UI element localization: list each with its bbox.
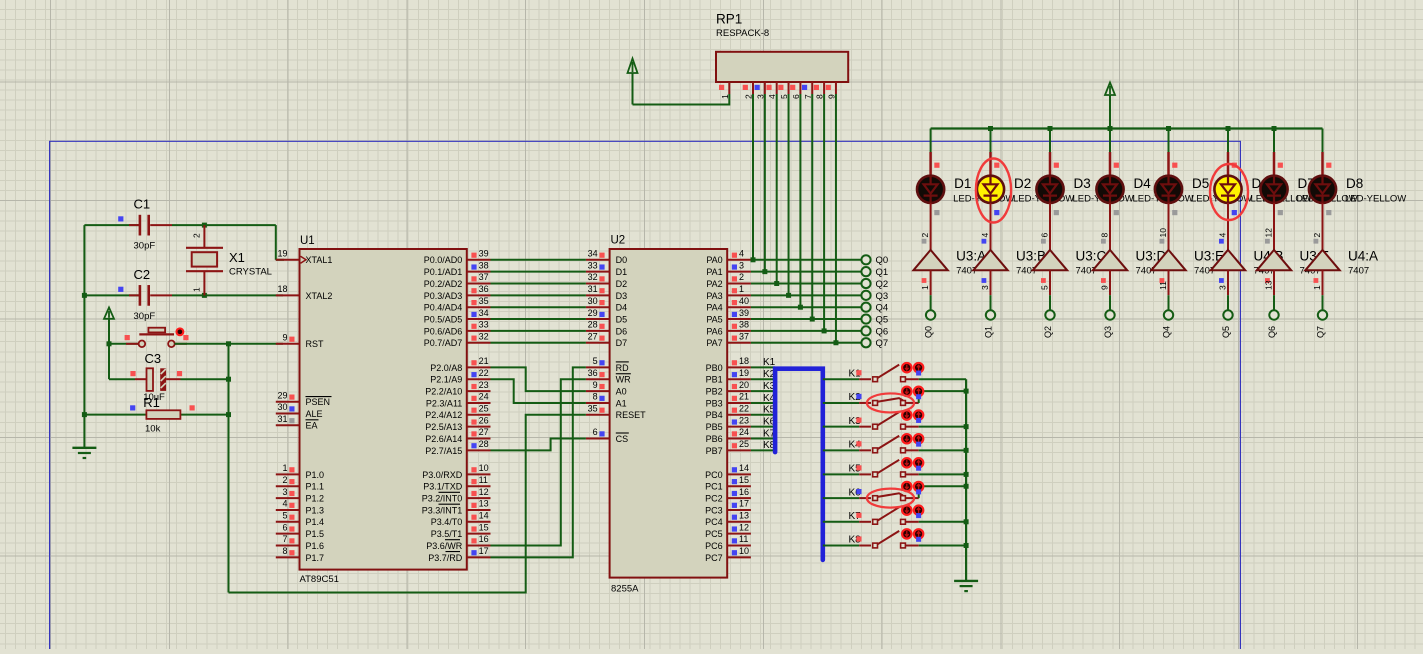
svg-text:XTAL1: XTAL1 <box>306 255 333 265</box>
wire LED D7 to buffer <box>1273 203 1275 250</box>
svg-text:P1.5: P1.5 <box>306 529 325 539</box>
svg-text:32: 32 <box>588 272 598 282</box>
svg-text:15: 15 <box>739 475 749 485</box>
svg-text:22: 22 <box>479 368 489 378</box>
LED D6 state square (top) <box>1232 163 1237 168</box>
svg-text:3: 3 <box>1218 285 1228 290</box>
LED D1 anode pin <box>929 152 932 176</box>
K7 actuator state square <box>916 513 921 518</box>
svg-text:P1.3: P1.3 <box>306 505 325 515</box>
K5 actuator state square <box>916 466 921 471</box>
button actuator circle <box>177 328 184 335</box>
U2 pin 20 PB2 <box>706 380 751 397</box>
svg-text:27: 27 <box>479 427 489 437</box>
svg-text:11: 11 <box>1158 281 1168 290</box>
svg-text:35: 35 <box>479 296 489 306</box>
svg-text:D1: D1 <box>616 267 628 277</box>
svg-text:40: 40 <box>739 296 749 306</box>
junction K8-ground rail <box>964 543 969 548</box>
wire PB1 stub to bus <box>751 378 775 380</box>
svg-text:PB7: PB7 <box>706 446 723 456</box>
U1 pin 34 P0.5/AD5 <box>424 308 491 325</box>
wire button to RST <box>175 343 284 345</box>
power symbol VCC (LED rail) <box>1105 83 1115 96</box>
LED D3 <box>1036 176 1063 203</box>
svg-text:32: 32 <box>479 331 489 341</box>
U2 pin 21 PB3 <box>706 392 751 409</box>
U2 pin 18 PB0 <box>706 356 751 373</box>
svg-text:PB4: PB4 <box>706 410 723 420</box>
svg-text:21: 21 <box>739 392 749 402</box>
terminal Q1 (LED column) <box>986 310 995 319</box>
buffer U3:E input state square <box>1160 278 1165 283</box>
buffer U4:A input pin <box>1322 270 1324 295</box>
svg-text:Q2: Q2 <box>876 279 889 290</box>
wire WR to P3.6 <box>491 379 586 545</box>
K3 actuator state square <box>916 418 921 423</box>
svg-text:PB5: PB5 <box>706 422 723 432</box>
svg-text:13: 13 <box>739 511 749 521</box>
ground (reset circuit) <box>72 447 96 449</box>
svg-text:30pF: 30pF <box>134 311 156 322</box>
wire buffer to terminal Q2 <box>1049 295 1051 310</box>
svg-text:P3.7/RD: P3.7/RD <box>428 553 463 563</box>
svg-text:36: 36 <box>588 368 598 378</box>
junction C3-RST node <box>226 377 231 382</box>
buffer U3:C output state square <box>1041 239 1046 244</box>
K8 actuator circles <box>902 529 923 538</box>
wire LED D4 to buffer <box>1109 203 1111 250</box>
RP1 pin 6 <box>790 82 801 99</box>
svg-text:14: 14 <box>739 463 749 473</box>
svg-text:6: 6 <box>593 427 598 437</box>
RP1 pin 1 <box>719 82 730 99</box>
buffer U4:B (7407) <box>1211 250 1245 270</box>
U1 pin 28 P2.7/A15 <box>425 439 490 456</box>
K4 actuator circles <box>902 434 923 443</box>
LED D2 state square (bottom) <box>994 210 999 215</box>
junction left C2 <box>82 293 87 298</box>
LED D5 anode pin <box>1167 152 1170 176</box>
wire rail to LED D1 <box>930 129 932 153</box>
svg-text:D4: D4 <box>616 303 628 313</box>
U1 pin 3 P1.2 <box>276 487 324 504</box>
U1 pin 29 PSEN <box>276 390 332 407</box>
svg-text:2: 2 <box>1312 233 1322 238</box>
svg-text:R1: R1 <box>143 395 160 410</box>
svg-text:P3.3/INT1: P3.3/INT1 <box>422 505 463 515</box>
wire C1 to XTAL1 <box>204 225 284 260</box>
wire AD2 bus U1-U2 <box>491 283 586 285</box>
U2 pin 13 PC4 <box>705 511 751 528</box>
svg-text:5: 5 <box>593 356 598 366</box>
svg-text:P0.1/AD1: P0.1/AD1 <box>424 267 463 277</box>
svg-text:29: 29 <box>588 308 598 318</box>
terminal Q5 <box>861 314 870 323</box>
svg-text:P2.3/A11: P2.3/A11 <box>426 398 462 408</box>
wire RP1 pin6 to Q4 net <box>799 94 801 307</box>
wire PB7 stub to bus <box>751 449 775 451</box>
LED D4 state square (bottom) <box>1114 210 1119 215</box>
wire P2.0 to A0 <box>491 367 586 391</box>
buffer U3:C input state square <box>1041 278 1046 283</box>
wire AD0 bus U1-U2 <box>491 259 586 261</box>
svg-text:A1: A1 <box>616 398 627 408</box>
svg-text:PA3: PA3 <box>706 291 722 301</box>
wire RP1 pin7 to Q5 net <box>811 94 813 319</box>
svg-text:Q6: Q6 <box>876 326 889 337</box>
wire rail to LED D6 <box>1227 129 1229 153</box>
push button (reset) <box>126 328 187 347</box>
terminal Q1 <box>861 267 870 276</box>
svg-text:P2.5/A13: P2.5/A13 <box>425 422 462 432</box>
U1 pin 26 P2.5/A13 <box>425 415 490 432</box>
RP1 pin 4 <box>766 82 777 99</box>
svg-text:PA1: PA1 <box>706 267 722 277</box>
U2 pin 24 PB6 <box>706 427 751 444</box>
svg-text:4: 4 <box>1218 233 1228 238</box>
buffer U3:D output state square <box>1101 239 1106 244</box>
U2 pin 14 PC0 <box>705 463 751 480</box>
svg-text:12: 12 <box>1264 228 1274 238</box>
U2 pin 3 PA1 <box>706 260 751 277</box>
wire PA4 to terminal Q4 <box>751 306 862 308</box>
buffer U3:E (7407) <box>1151 250 1185 270</box>
wire AD7 bus U1-U2 <box>491 342 586 344</box>
buffer U3:F input pin <box>1273 270 1275 295</box>
svg-text:PC4: PC4 <box>705 517 723 527</box>
U2 pin 15 PC1 <box>705 475 751 492</box>
U1 pin 30 ALE <box>276 402 323 419</box>
buffer U3:E input pin <box>1168 270 1170 295</box>
svg-text:P3.4/T0: P3.4/T0 <box>431 517 463 527</box>
wire buffer to terminal Q1 <box>990 295 992 310</box>
wire LED D3 to buffer <box>1049 203 1051 250</box>
svg-text:PC2: PC2 <box>705 494 723 504</box>
svg-text:RESPACK-8: RESPACK-8 <box>716 28 769 39</box>
svg-text:18: 18 <box>277 284 287 294</box>
U2 pin 17 PC3 <box>705 499 751 516</box>
terminal Q6 (LED column) <box>1269 310 1278 319</box>
svg-text:16: 16 <box>479 534 489 544</box>
wire LED D5 to buffer <box>1168 203 1170 250</box>
wire rail to LED D7 <box>1273 129 1275 153</box>
svg-text:Q7: Q7 <box>876 338 889 349</box>
svg-text:EA: EA <box>306 421 318 431</box>
wire AD6 bus U1-U2 <box>491 330 586 332</box>
svg-text:D3: D3 <box>616 291 628 301</box>
LED D5 <box>1155 176 1182 203</box>
U2 pin 6 CS <box>586 427 629 444</box>
U1 pin 5 P1.4 <box>276 511 324 528</box>
wire LED D6 to buffer <box>1227 203 1229 250</box>
junction RP1-PA5 <box>810 317 815 322</box>
wire RD to P3.7 <box>491 367 586 557</box>
buffer U4:A (7407) <box>1305 250 1339 270</box>
junction LED rail col 5 <box>1166 126 1171 131</box>
wire PA6 to terminal Q6 <box>751 330 862 332</box>
svg-text:10: 10 <box>479 463 489 473</box>
U2 pin 28 D6 <box>586 320 627 337</box>
svg-text:Q0: Q0 <box>876 255 889 266</box>
svg-text:4: 4 <box>739 249 744 259</box>
svg-text:U4:A: U4:A <box>1348 249 1378 264</box>
svg-text:PC3: PC3 <box>705 505 723 515</box>
U1 pin 21 P2.0/A8 <box>430 356 490 373</box>
svg-text:2: 2 <box>282 475 287 485</box>
svg-text:P2.0/A8: P2.0/A8 <box>430 363 462 373</box>
U1 AT89C51 body <box>300 249 467 570</box>
U1 pin 24 P2.3/A11 <box>426 392 491 409</box>
svg-text:AT89C51: AT89C51 <box>300 574 339 585</box>
K6 actuator circles <box>902 482 923 491</box>
svg-text:24: 24 <box>479 392 489 402</box>
wire rail to LED D3 <box>1049 129 1051 153</box>
junction LED rail VCC <box>1108 126 1113 131</box>
wire rail to LED D2 <box>990 129 992 153</box>
junction RP1-PA1 <box>762 269 767 274</box>
svg-text:P3.5/T1: P3.5/T1 <box>431 529 463 539</box>
U1 pin 33 P0.6/AD6 <box>424 320 491 337</box>
capacitor C3 (10uF) <box>109 368 229 391</box>
LED D7 anode pin <box>1273 152 1276 176</box>
switch highlight ellipse K6 <box>867 489 914 508</box>
LED D2 state square (top) <box>994 163 999 168</box>
svg-text:P0.4/AD4: P0.4/AD4 <box>424 303 463 313</box>
terminal Q7 (LED column) <box>1318 310 1327 319</box>
LED D8 <box>1309 176 1336 203</box>
U2 pin 27 D7 <box>586 331 627 348</box>
sheet border <box>50 141 1241 649</box>
power symbol VCC (reset) <box>104 308 114 319</box>
svg-text:D5: D5 <box>1192 176 1209 191</box>
LED D1 state square (top) <box>934 163 939 168</box>
crystal X1 <box>186 225 223 295</box>
U1 pin 17 P3.7/RD <box>428 546 490 563</box>
svg-text:PA4: PA4 <box>706 303 722 313</box>
svg-text:U2: U2 <box>611 235 626 247</box>
svg-text:31: 31 <box>588 284 598 294</box>
switch ground rail <box>965 379 967 581</box>
buffer U4:B output state square <box>1219 239 1224 244</box>
svg-text:39: 39 <box>479 249 489 259</box>
wire rail to LED D8 <box>1322 129 1324 153</box>
junction RP1-PA0 <box>751 257 756 262</box>
svg-text:30: 30 <box>277 402 287 412</box>
wire PB5 stub to bus <box>751 426 775 428</box>
junction RP1-PA2 <box>774 281 779 286</box>
RP1 pin 5 <box>778 82 789 99</box>
U2 pin 38 PA6 <box>706 320 751 337</box>
svg-text:25: 25 <box>479 404 489 414</box>
K1 state square <box>856 370 861 375</box>
LED D6 <box>1214 176 1241 203</box>
svg-text:PC5: PC5 <box>705 529 723 539</box>
U1 pin 22 P2.1/A9 <box>430 368 490 385</box>
LED D7 state square (bottom) <box>1278 210 1283 215</box>
buffer U3:B input state square <box>982 278 987 283</box>
U1 pin 38 P0.1/AD1 <box>424 260 491 277</box>
svg-text:25: 25 <box>739 439 749 449</box>
U2 pin 22 PB4 <box>706 404 751 421</box>
wire VCC to C3 <box>108 344 110 379</box>
svg-text:19: 19 <box>739 368 749 378</box>
switch K6 <box>823 486 966 500</box>
svg-text:5: 5 <box>282 511 287 521</box>
resistor R1 <box>84 410 228 419</box>
wire RP1 pin5 to Q3 net <box>788 94 790 295</box>
U2 pin 9 A0 <box>586 380 627 397</box>
svg-text:2: 2 <box>920 233 930 238</box>
svg-text:D8: D8 <box>1346 176 1363 191</box>
K6 actuator state square <box>916 489 921 494</box>
ground (switches) <box>954 580 978 582</box>
svg-text:3: 3 <box>739 260 744 270</box>
svg-text:PB2: PB2 <box>706 387 723 397</box>
wire RP1 pin2 to Q0 net <box>752 94 754 260</box>
svg-text:A0: A0 <box>616 387 627 397</box>
wire buffer to terminal Q0 <box>930 295 932 310</box>
svg-text:PC6: PC6 <box>705 541 723 551</box>
K5 actuator circles <box>902 458 923 467</box>
switch K7 <box>823 507 966 524</box>
junction RP1-PA6 <box>822 328 827 333</box>
RP1 pin 7 <box>802 82 813 99</box>
svg-text:1: 1 <box>739 284 744 294</box>
svg-text:35: 35 <box>588 404 598 414</box>
U1 pin 23 P2.2/A10 <box>425 380 490 397</box>
K5 state square <box>856 465 861 470</box>
svg-text:C1: C1 <box>134 197 151 212</box>
wire RESET to RST node <box>229 415 586 593</box>
svg-text:P1.1: P1.1 <box>306 482 325 492</box>
svg-text:6: 6 <box>1040 233 1050 238</box>
buffer U4:A output state square <box>1314 239 1319 244</box>
svg-text:23: 23 <box>739 415 749 425</box>
svg-text:PA7: PA7 <box>706 338 722 348</box>
LED D4 anode pin <box>1109 152 1112 176</box>
svg-text:Q0: Q0 <box>924 326 934 338</box>
svg-text:PC1: PC1 <box>705 482 723 492</box>
wire RP1 pin4 to Q2 net <box>776 94 778 284</box>
svg-text:P0.0/AD0: P0.0/AD0 <box>424 255 463 265</box>
LED D7 <box>1260 176 1287 203</box>
svg-text:PSEN: PSEN <box>306 397 331 407</box>
U2 pin 39 PA5 <box>706 308 751 325</box>
wire PA1 to terminal Q1 <box>751 271 862 273</box>
U1 pin 1 P1.0 <box>276 463 324 480</box>
K2 state square <box>856 394 861 399</box>
U1 pin 35 P0.4/AD4 <box>424 296 491 313</box>
buffer U3:A output state square <box>922 239 927 244</box>
svg-text:C2: C2 <box>134 267 151 282</box>
U1 P3 name overlines <box>439 492 461 551</box>
svg-text:PC0: PC0 <box>705 470 723 480</box>
svg-text:2: 2 <box>739 272 744 282</box>
svg-text:2: 2 <box>192 233 202 238</box>
svg-text:4: 4 <box>980 233 990 238</box>
svg-text:P1.0: P1.0 <box>306 470 325 480</box>
svg-text:D7: D7 <box>616 338 628 348</box>
wire buffer to terminal Q7 <box>1322 295 1324 310</box>
LED D8 anode pin <box>1321 152 1324 176</box>
U2 pin 32 D2 <box>586 272 627 289</box>
C1 state square <box>118 216 123 221</box>
U1 pin 36 P0.3/AD3 <box>424 284 491 301</box>
wire RP1 pin1 to VCC <box>633 94 730 105</box>
junction K6-ground rail <box>964 484 969 489</box>
U2 8255A body <box>610 249 728 578</box>
K2 actuator state square <box>916 394 921 399</box>
U2 pin 10 PC7 <box>705 546 751 563</box>
wire buffer to terminal Q4 <box>1168 295 1170 310</box>
svg-text:29: 29 <box>277 390 287 400</box>
junction C2-X1 <box>202 293 207 298</box>
U1 pin 25 P2.4/A12 <box>425 404 490 421</box>
U2 pin 34 D0 <box>586 249 627 266</box>
U2 pin 19 PB1 <box>706 368 751 385</box>
capacitor C2 <box>129 285 204 306</box>
LED D7 state square (top) <box>1278 163 1283 168</box>
svg-text:21: 21 <box>479 356 489 366</box>
buffer U3:A (7407) <box>913 250 947 270</box>
U2 pin 2 PA2 <box>706 272 751 289</box>
svg-text:RST: RST <box>306 339 325 349</box>
LED D2 anode pin <box>989 152 992 176</box>
svg-text:13: 13 <box>479 499 489 509</box>
svg-text:3: 3 <box>282 487 287 497</box>
switch K5 <box>823 460 966 477</box>
LED D6 state square (bottom) <box>1232 210 1237 215</box>
svg-text:P2.1/A9: P2.1/A9 <box>430 375 462 385</box>
terminal Q5 (LED column) <box>1223 310 1232 319</box>
junction R1-ground rail <box>82 412 87 417</box>
svg-text:CS: CS <box>616 434 629 444</box>
svg-text:Q3: Q3 <box>876 291 889 302</box>
buffer U3:B input pin <box>990 270 992 295</box>
wire LED D8 to buffer <box>1322 203 1324 250</box>
svg-text:8: 8 <box>593 392 598 402</box>
svg-text:XTAL2: XTAL2 <box>306 291 333 301</box>
svg-text:P1.7: P1.7 <box>306 553 325 563</box>
U1 pin 19 XTAL1 <box>276 249 333 266</box>
svg-text:26: 26 <box>479 415 489 425</box>
U1 pin 31 EA <box>276 414 319 431</box>
svg-text:10: 10 <box>739 546 749 556</box>
wire PB4 stub to bus <box>751 414 775 416</box>
buffer U3:F input state square <box>1265 278 1270 283</box>
svg-text:1: 1 <box>1312 285 1322 290</box>
buffer U3:F (7407) <box>1257 250 1291 270</box>
wire RP1 pin8 to Q6 net <box>823 94 825 331</box>
wire VCC-C1C2 left vertical <box>83 225 85 448</box>
terminal Q7 <box>861 338 870 347</box>
svg-text:Q5: Q5 <box>876 314 889 325</box>
svg-text:33: 33 <box>588 260 598 270</box>
wire rail to LED D4 <box>1109 129 1111 153</box>
svg-text:34: 34 <box>588 249 598 259</box>
svg-text:Q2: Q2 <box>1043 326 1053 338</box>
LED D5 state square (bottom) <box>1172 210 1177 215</box>
RP1 pin 2 <box>743 82 754 99</box>
svg-text:8255A: 8255A <box>611 584 639 595</box>
svg-text:RD: RD <box>616 363 629 373</box>
svg-text:12: 12 <box>739 522 749 532</box>
buffer U3:E output state square <box>1160 239 1165 244</box>
U2 pin 25 PB7 <box>706 439 751 456</box>
svg-text:8: 8 <box>1100 233 1110 238</box>
svg-text:39: 39 <box>739 308 749 318</box>
